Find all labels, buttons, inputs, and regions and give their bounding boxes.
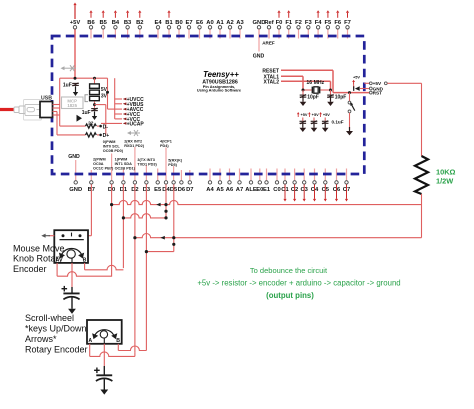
- svg-text:0(PWM: 0(PWM: [103, 140, 116, 144]
- svg-text:A0: A0: [206, 20, 213, 26]
- svg-text:A4: A4: [206, 187, 214, 193]
- svg-text:2(RX INT2: 2(RX INT2: [124, 139, 142, 143]
- svg-text:TXD1 PD3): TXD1 PD3): [137, 163, 157, 167]
- pin B3 (top row): [124, 10, 132, 38]
- jumper pads 5V/3V selector: [94, 78, 96, 84]
- svg-text:F5: F5: [325, 20, 333, 26]
- pin E7 (top row): [185, 20, 192, 39]
- pin C2 (bottom row): [291, 169, 298, 202]
- bus line C : D2/D5 to R1: [135, 233, 422, 237]
- svg-text:AREF: AREF: [262, 40, 275, 45]
- pin F0 (top row): [276, 10, 283, 38]
- svg-text:A2: A2: [226, 20, 233, 26]
- pin C4 (bottom row): [311, 169, 319, 202]
- svg-text:10KΩ: 10KΩ: [436, 168, 456, 177]
- wire USB cable to left edge: [0, 108, 14, 111]
- node RST junction: [348, 91, 351, 94]
- svg-text:(output pins): (output pins): [266, 291, 314, 300]
- pin D6 (bottom row): [178, 170, 186, 193]
- resistor R1 10K 1/2W: [415, 156, 428, 194]
- pin F5 (top row): [325, 10, 333, 38]
- black pad arrow (bottom of regulator): [77, 115, 83, 122]
- svg-text:10pF: 10pF: [335, 94, 347, 100]
- node GND (bottom internal): [75, 160, 77, 169]
- node AREF: [268, 29, 270, 38]
- svg-text:GND: GND: [68, 154, 80, 160]
- USB receptacle J1: [40, 102, 53, 118]
- svg-text:Rotary Encoder: Rotary Encoder: [25, 344, 88, 354]
- pin F1 (top row): [285, 10, 293, 38]
- svg-text:Arrows*: Arrows*: [25, 334, 57, 344]
- svg-text:1825: 1825: [67, 103, 77, 108]
- pin F3 (top row): [305, 20, 313, 39]
- ground (below C8): [68, 309, 76, 314]
- pin D4 (bottom row): [162, 148, 170, 193]
- ground (below C6): [313, 124, 315, 128]
- svg-text:B: B: [83, 258, 87, 264]
- wire +5V rail (top of regulator cluster): [60, 77, 108, 79]
- pin D2 (bottom row): [131, 147, 138, 193]
- wire encoder1 A to D0: [56, 263, 58, 276]
- pin B7 (bottom row): [88, 170, 95, 193]
- svg-text:1uF: 1uF: [63, 83, 72, 89]
- svg-text:A3: A3: [236, 20, 244, 26]
- ground (below C3): [302, 98, 304, 102]
- svg-text:F4: F4: [315, 20, 323, 26]
- svg-text:3(TX INT3: 3(TX INT3: [137, 158, 155, 162]
- wire encoder1 B to D1: [84, 263, 86, 270]
- gray arrows (board underside marker): [61, 66, 65, 70]
- svg-text:B1: B1: [165, 20, 173, 26]
- svg-text:RXD1 PD2): RXD1 PD2): [124, 144, 145, 148]
- svg-text:To debounce the circuit: To debounce the circuit: [250, 266, 328, 275]
- pin A4 (bottom row): [206, 169, 214, 193]
- svg-text:OC0A: OC0A: [93, 162, 104, 166]
- svg-text:E1: E1: [263, 187, 271, 193]
- bus line A : D0/D4 to R1: [112, 200, 153, 204]
- wire D4 stub: [165, 184, 167, 218]
- resistor R3 22 ohm (D+): [56, 112, 58, 135]
- wire below 3V pad: [94, 101, 96, 107]
- pin F6 (top row): [334, 10, 342, 38]
- rotary encoder SW3 (scroll wheel): [87, 320, 122, 344]
- svg-text:1/2W: 1/2W: [436, 177, 453, 186]
- svg-text:+5v -> resistor -> encoder + a: +5v -> resistor -> encoder + arduino -> …: [197, 279, 400, 288]
- pin E1 (bottom row): [263, 169, 271, 193]
- svg-text:*keys Up/Down: *keys Up/Down: [25, 323, 87, 333]
- svg-text:USB: USB: [41, 95, 52, 101]
- svg-text:D-: D-: [103, 124, 109, 130]
- pin E0 (bottom row): [256, 169, 263, 193]
- svg-text:F0: F0: [276, 20, 283, 26]
- wire XTAL2 net: [281, 80, 331, 82]
- pin A2 (top row): [226, 20, 233, 39]
- wire encoder2 A to D2: [89, 344, 91, 357]
- capacitor C5 0.1uF with +5V ref: [297, 114, 299, 117]
- pin B1 (top row): [165, 10, 173, 38]
- Teensy board outline (dashed): [52, 36, 364, 174]
- node GND (top, to AGND label): [258, 29, 260, 51]
- svg-text:A7: A7: [236, 187, 243, 193]
- svg-text:B3: B3: [124, 20, 132, 26]
- pin E6 (top row): [196, 20, 204, 39]
- svg-text:16 MHz: 16 MHz: [306, 80, 324, 86]
- svg-text:C0: C0: [273, 187, 280, 193]
- svg-text:+5V: +5V: [353, 74, 360, 79]
- svg-text:F3: F3: [305, 20, 313, 26]
- pin A3 (top row): [236, 20, 244, 39]
- svg-text:3V: 3V: [101, 94, 108, 100]
- pin A5 (bottom row): [216, 169, 224, 193]
- svg-text:RST: RST: [373, 91, 383, 96]
- pin C1 (bottom row): [281, 169, 289, 202]
- pin F4 (top row): [315, 10, 323, 38]
- wire D0 vertical: [111, 184, 113, 276]
- pin ALE (bottom row): [245, 169, 257, 193]
- svg-text:B4: B4: [112, 20, 120, 26]
- ground (below C4): [330, 98, 332, 102]
- wire D2 vertical: [134, 184, 136, 352]
- svg-text:D6: D6: [178, 187, 186, 193]
- svg-text:PD4): PD4): [160, 144, 169, 148]
- pin C7 (bottom row): [343, 169, 350, 202]
- wire D3 vertical: [145, 184, 147, 348]
- pushbutton SW1 (reset): [349, 93, 351, 101]
- node junction on +5V rail: [74, 77, 77, 80]
- regulator U2 MCP1825: [62, 97, 84, 109]
- pin F2 (top row): [295, 20, 302, 39]
- svg-text:1(PWM: 1(PWM: [115, 157, 128, 161]
- svg-text:A1: A1: [216, 20, 224, 26]
- jumper bracket: [85, 95, 88, 102]
- pin GND (bottom row): [69, 169, 82, 193]
- svg-text:A: A: [88, 338, 92, 344]
- diode D1 (RST to +5V): [355, 86, 360, 91]
- pin C0 (bottom row): [273, 169, 280, 193]
- ground (below C9): [100, 390, 108, 395]
- capacitor C3 10pF: [302, 90, 304, 95]
- ground (below C1): [75, 86, 77, 92]
- svg-text:2(PWM: 2(PWM: [93, 157, 106, 161]
- svg-text:F6: F6: [334, 20, 342, 26]
- wire +5V to R1: [387, 82, 421, 84]
- pin D5 (bottom row): [170, 166, 178, 193]
- pin E4 (top row): [154, 20, 162, 39]
- svg-text:XTAL2: XTAL2: [264, 79, 280, 85]
- svg-text:B2: B2: [136, 20, 143, 26]
- svg-text:Ref: Ref: [264, 20, 273, 26]
- wire encoder1 left terminal + gray arrow: [49, 235, 55, 237]
- svg-text:A5: A5: [216, 187, 224, 193]
- capacitor C6 0.1uF with +5V ref: [308, 114, 310, 117]
- svg-text:GND: GND: [253, 54, 265, 60]
- wire GND edge stub: [360, 88, 369, 90]
- svg-text:D+: D+: [103, 133, 110, 139]
- pin B4 (top row): [112, 10, 120, 38]
- svg-text:+5V: +5V: [323, 112, 330, 117]
- svg-text:+5V: +5V: [300, 112, 307, 117]
- wire R1 bottom to buses: [421, 194, 423, 238]
- pin D1 (bottom row): [120, 170, 128, 193]
- bus line B : D1 to D4: [123, 214, 166, 218]
- pin Ref (top row): [264, 20, 273, 39]
- svg-text:4(ICP1: 4(ICP1: [160, 139, 172, 143]
- wire left branch of cluster: [59, 78, 61, 126]
- pin A1 (top row): [216, 20, 224, 39]
- svg-text:GND: GND: [69, 187, 82, 193]
- svg-text:+5V: +5V: [70, 20, 81, 26]
- power net labels +UVCC/+VBUS/+AVCC/+VCC/+VCC/+UCAP: [107, 78, 109, 109]
- wire RESET net: [281, 69, 333, 71]
- wire D1 vertical: [122, 184, 124, 268]
- svg-text:Using Arduino Software: Using Arduino Software: [197, 88, 242, 93]
- svg-text:10pF: 10pF: [307, 94, 319, 100]
- rotary encoder SW2 (mouse move knob): [54, 230, 88, 263]
- svg-text:B: B: [116, 338, 120, 344]
- svg-text:OC1C PB7): OC1C PB7): [93, 167, 114, 171]
- wire B7 to encoder1 switch: [90, 184, 92, 235]
- svg-text:Knob Rotary: Knob Rotary: [13, 254, 64, 264]
- svg-text:ALE: ALE: [245, 187, 257, 193]
- svg-text:1uF: 1uF: [82, 110, 91, 116]
- wire +5V pin into regulator cluster: [74, 30, 76, 79]
- pin F7 (top row): [344, 10, 351, 38]
- board edge pads +5V / GND / RST: [364, 82, 369, 84]
- svg-text:0.1uF: 0.1uF: [332, 120, 344, 125]
- pin B6 (top row): [87, 10, 95, 38]
- svg-text:+5V: +5V: [312, 112, 319, 117]
- pin C5 (bottom row): [322, 169, 330, 202]
- svg-text:+UCAP: +UCAP: [127, 121, 145, 127]
- svg-text:Encoder: Encoder: [13, 264, 47, 274]
- capacitor C9 (debounce, polarized): [94, 366, 112, 390]
- USB pins VBUS / D- / D+ / GND: [53, 104, 60, 106]
- svg-text:OC0B PD0): OC0B PD0): [103, 149, 124, 153]
- ground (below C2): [94, 111, 96, 116]
- pin C6 (bottom row): [333, 169, 341, 202]
- pin +5V (top row): [70, 3, 81, 39]
- pin E5 (bottom row): [154, 169, 162, 193]
- pin B5 (top row): [99, 10, 107, 38]
- pin B0 (top row): [175, 20, 182, 39]
- svg-text:INT1 SDA: INT1 SDA: [115, 162, 133, 166]
- USB plug (cable end): [14, 100, 42, 121]
- svg-text:B5: B5: [99, 20, 107, 26]
- svg-text:Scroll-wheel: Scroll-wheel: [25, 313, 74, 323]
- wire encoder2 B to D3: [117, 344, 119, 351]
- svg-text:Teensy++: Teensy++: [203, 70, 239, 79]
- svg-text:PD5): PD5): [168, 163, 177, 167]
- svg-text:INT0 SCL: INT0 SCL: [103, 144, 121, 148]
- pin D7 (bottom row): [186, 170, 193, 193]
- pin A7 (bottom row): [236, 169, 243, 193]
- svg-text:Mouse Move: Mouse Move: [13, 243, 65, 253]
- ground (below C7): [324, 124, 326, 128]
- wire from 3V node to D+ row: [95, 104, 106, 106]
- capacitor C8 (debounce, polarized): [62, 286, 80, 309]
- pin A0 (top row): [206, 20, 213, 39]
- pin D3 (bottom row): [143, 166, 151, 193]
- svg-text:E6: E6: [196, 20, 204, 26]
- pin C3 (bottom row): [300, 169, 308, 202]
- svg-text:OC2B PD1): OC2B PD1): [115, 167, 136, 171]
- wire D5 vertical to D3: [173, 184, 175, 251]
- svg-text:D7: D7: [186, 187, 193, 193]
- svg-text:F1: F1: [285, 20, 293, 26]
- svg-text:B6: B6: [87, 20, 95, 26]
- ground (below reset button): [349, 127, 351, 131]
- pin A6 (bottom row): [226, 169, 234, 193]
- pin B2 (top row): [136, 10, 143, 38]
- wire encoder1 common down to cap: [71, 263, 73, 287]
- capacitor C4 10pF: [330, 90, 332, 95]
- svg-text:E5: E5: [154, 187, 162, 193]
- wire XTAL1 net: [281, 75, 303, 77]
- svg-text:A6: A6: [226, 187, 234, 193]
- ground (below C5): [302, 124, 304, 128]
- wire encoder2 common down to cap: [103, 344, 105, 366]
- svg-text:F7: F7: [344, 20, 351, 26]
- svg-text:E4: E4: [154, 20, 162, 26]
- pin GND (top row): [253, 20, 266, 39]
- capacitor C7 0.1uF with +5V ref: [320, 114, 322, 117]
- svg-text:E7: E7: [185, 20, 192, 26]
- svg-text:B0: B0: [175, 20, 182, 26]
- svg-text:5(RX(K): 5(RX(K): [168, 158, 183, 162]
- svg-text:F2: F2: [295, 20, 302, 26]
- pin D0 (bottom row): [108, 154, 115, 193]
